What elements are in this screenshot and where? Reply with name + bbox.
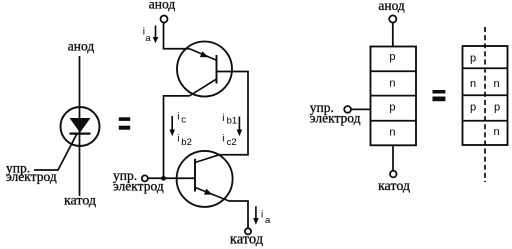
split dashed line (484, 27, 486, 182)
transistor Q2 collector diagonal (195, 155, 219, 163)
layer label p2 (389, 101, 395, 113)
svg-text:анод: анод (68, 39, 95, 54)
node анод (middle anode label) (149, 0, 176, 12)
node анод (left thyristor anode label) (68, 39, 95, 54)
gate terminal circle (right) (344, 106, 351, 113)
layer label n1 (389, 78, 395, 90)
svg-text:электрод: электрод (113, 179, 164, 194)
label i_b1 (222, 113, 237, 127)
svg-text:i: i (222, 134, 224, 145)
svg-text:электрод: электрод (310, 110, 361, 125)
transistor Q1 collector diagonal (189, 79, 216, 96)
wire gate to p2 layer (351, 108, 371, 110)
svg-text:p: p (470, 52, 476, 64)
current arrow i_a top (153, 26, 159, 44)
svg-text:анод: анод (149, 0, 176, 12)
equals sign 2 (433, 90, 446, 101)
layer label n2 (389, 127, 395, 139)
svg-text:b2: b2 (181, 137, 192, 148)
thyristor VS1 circle (61, 107, 100, 146)
svg-text:n: n (493, 126, 499, 138)
svg-text:b1: b1 (227, 116, 238, 127)
svg-text:i: i (177, 112, 179, 123)
svg-text:i: i (222, 113, 224, 124)
split structure outer box (463, 46, 508, 145)
thyristor VS1 cathode bar (70, 133, 91, 135)
node упр. электрод (right gate labels) (310, 100, 361, 125)
gate terminal circle (middle) (142, 175, 148, 181)
label i_a bottom (261, 210, 271, 227)
split layer label p left row3 (470, 102, 476, 114)
split layer label p right row3 (494, 102, 500, 114)
wire anode to pnpn stack (392, 23, 394, 47)
transistor Q2 emitter with arrow (195, 187, 229, 201)
svg-text:c2: c2 (227, 137, 237, 148)
svg-text:электрод: электрод (6, 169, 57, 184)
svg-text:i: i (261, 210, 263, 221)
split layer label n right row4 (493, 126, 499, 138)
layer label p1 (389, 51, 395, 63)
transistor Q2 base bar (194, 159, 196, 192)
node катод (left cathode label) (64, 194, 96, 209)
wire anode lead of thyristor (79, 56, 81, 107)
label i_a top (143, 26, 152, 44)
svg-text:c: c (181, 115, 186, 126)
svg-text:p: p (470, 102, 476, 114)
svg-text:анод: анод (378, 0, 405, 13)
junction dot gate node (161, 176, 166, 181)
node катод (middle cathode label) (230, 232, 264, 248)
current arrow i_b1 (237, 117, 243, 137)
transistor Q1 emitter with arrow (190, 49, 217, 61)
svg-text:i: i (177, 134, 179, 145)
svg-text:a: a (265, 215, 271, 226)
label i_c (177, 112, 186, 126)
svg-text:n: n (389, 78, 395, 90)
wire stack to cathode (392, 145, 394, 171)
wire Q1 base to Q2 collector (217, 72, 249, 155)
svg-text:p: p (494, 102, 500, 114)
svg-text:катод: катод (378, 179, 410, 194)
svg-text:n: n (389, 127, 395, 139)
node упр. электрод (left gate label) (6, 160, 57, 184)
cathode terminal circle (right) (390, 171, 397, 178)
split layer label n left row2 (470, 78, 476, 90)
svg-text:n: n (470, 78, 476, 90)
current arrow i_c (169, 116, 175, 136)
pnpn stack outer box (371, 47, 417, 146)
split layer label n right row2 (493, 78, 499, 90)
transistor Q1 circle (pnp) (177, 42, 232, 97)
label i_c2 (222, 134, 236, 149)
svg-text:катод: катод (230, 232, 264, 248)
svg-text:катод: катод (64, 194, 96, 209)
node упр. электрод (middle gate labels) (113, 168, 164, 194)
node катод (right cathode label) (378, 179, 410, 194)
equals sign 1 (119, 117, 130, 129)
transistor Q2 circle (npn) (177, 151, 233, 207)
svg-text:n: n (493, 78, 499, 90)
svg-text:a: a (145, 33, 151, 44)
node анод (right anode label) (378, 0, 405, 13)
pnpn stack dividers (371, 71, 417, 121)
split layer label p left row1 (470, 52, 476, 64)
wire Q2 emitter to cathode (229, 201, 248, 228)
anode terminal circle (middle) (161, 16, 168, 23)
svg-text:p: p (389, 51, 395, 63)
cathode terminal circle (middle) (245, 228, 251, 234)
anode terminal circle (right) (389, 15, 396, 22)
thyristor VS1 triangle (71, 119, 90, 132)
wire through thyristor (79, 107, 81, 196)
label i_b2 (177, 134, 192, 149)
wire gate to Q2 base (148, 177, 195, 179)
wire anode to Q1 emitter (164, 22, 190, 49)
current arrow i_a bottom (253, 206, 259, 225)
wire gate diagonal of thyristor (34, 134, 77, 170)
wire Q1 collector to gate node (164, 96, 190, 178)
transistor Q1 base bar (216, 55, 218, 84)
svg-text:p: p (389, 101, 395, 113)
split structure dividers (463, 68, 508, 121)
